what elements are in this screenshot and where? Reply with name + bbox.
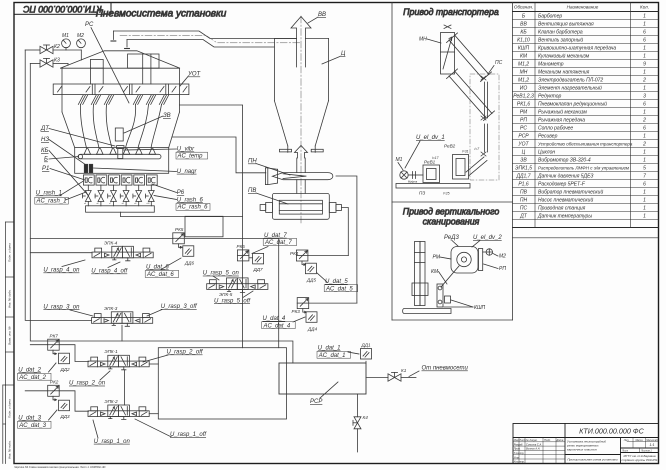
svg-text:РК3: РК3	[292, 309, 301, 314]
up arrow into cyclone	[295, 146, 308, 159]
svg-text:РК7: РК7	[50, 334, 59, 339]
svg-text:U_rasp_5_on: U_rasp_5_on	[203, 271, 240, 277]
labels U_dat_5	[325, 279, 353, 292]
valve К2	[40, 44, 60, 54]
svg-text:U_dat_4: U_dat_4	[263, 316, 286, 322]
wire drop to loop	[278, 239, 280, 348]
svg-text:1: 1	[643, 206, 646, 212]
svg-text:U_rasp_4_off: U_rasp_4_off	[91, 269, 128, 275]
svg-text:1: 1	[643, 86, 646, 92]
svg-text:1: 1	[643, 14, 646, 20]
wire drum taper to ПН	[172, 137, 266, 173]
svg-text:ДД7: ДД7	[253, 267, 263, 272]
svg-text:U_rasp_3_on: U_rasp_3_on	[43, 304, 80, 310]
ДД4	[306, 312, 317, 332]
svg-text:Вентиляция вытяжная: Вентиляция вытяжная	[538, 22, 594, 28]
drum lid	[60, 51, 180, 68]
cyclone centerline	[300, 16, 302, 224]
svg-text:U_el_dv_2: U_el_dv_2	[473, 235, 502, 241]
svg-text:U_rasp_2_on: U_rasp_2_on	[69, 381, 106, 387]
svg-text:Лит.: Лит.	[623, 439, 630, 442]
svg-text:К2: К2	[54, 44, 60, 50]
svg-text:Муфта: Муфта	[408, 180, 418, 184]
svg-text:ВВ: ВВ	[520, 22, 527, 28]
svg-text:U_dat_5: U_dat_5	[325, 279, 348, 285]
svg-text:6: 6	[643, 30, 646, 36]
chain shafts	[466, 76, 488, 176]
svg-text:Ц: Ц	[341, 51, 346, 57]
svg-text:Принципиальная схема установки: Принципиальная схема установки	[567, 458, 618, 462]
svg-text:КТИ.000.00.000 ФС: КТИ.000.00.000 ФС	[579, 427, 644, 436]
svg-text:Элемент нагревательный: Элемент нагревательный	[538, 85, 602, 92]
manifold bar	[86, 206, 155, 212]
svg-text:ИО: ИО	[520, 86, 528, 92]
svg-text:Р6: Р6	[177, 190, 185, 196]
svg-text:U_dat_7: U_dat_7	[264, 233, 287, 239]
svg-text:КМ: КМ	[431, 269, 439, 275]
svg-text:КМ: КМ	[520, 54, 528, 60]
ДД7	[253, 253, 264, 272]
belt drive 1	[447, 33, 492, 82]
svg-text:Циклон: Циклон	[538, 150, 555, 156]
pump ПН	[265, 158, 332, 193]
labels U_vibr AC_temp U_nagr	[177, 147, 204, 175]
stamp box top-left	[14, 3, 111, 15]
svg-text:Кол.: Кол.	[640, 4, 649, 9]
labels right Р6 U_rash_6	[177, 190, 209, 211]
svg-text:КБ: КБ	[41, 148, 49, 154]
svg-text:сканирования: сканирования	[423, 217, 480, 227]
svg-text:Манометр: Манометр	[538, 62, 564, 68]
svg-text:Р1,6: Р1,6	[518, 182, 529, 188]
svg-text:М1: М1	[396, 157, 403, 163]
svg-text:КШП: КШП	[474, 305, 486, 311]
svg-text:2: 2	[642, 118, 646, 124]
svg-text:РСР: РСР	[310, 399, 322, 405]
svg-text:1:1: 1:1	[650, 443, 655, 447]
svg-text:Лист: Лист	[621, 450, 628, 453]
svg-text:Сопло рабочее: Сопло рабочее	[538, 126, 573, 132]
svg-text:к5: к5	[84, 203, 86, 205]
svg-text:Рычажный механизм: Рычажный механизм	[538, 109, 587, 116]
coupling	[408, 172, 423, 184]
bubbler zone box	[75, 148, 169, 174]
labels U_dat_3	[18, 416, 46, 430]
svg-text:КШП: КШП	[518, 46, 530, 52]
svg-text:М1: М1	[62, 33, 69, 39]
labels left of flowmeter row	[36, 191, 67, 205]
svg-text:U_el_dv_1: U_el_dv_1	[416, 135, 445, 141]
section borders	[391, 3, 393, 321]
bubbler bar Б	[78, 154, 161, 159]
svg-text:AC_rash_1: AC_rash_1	[36, 199, 67, 205]
svg-text:Ц: Ц	[522, 150, 526, 156]
svg-text:Инв. № дубл.: Инв. № дубл.	[8, 289, 12, 308]
svg-text:ПС: ПС	[495, 60, 503, 66]
wire long horizontal to РК5	[30, 238, 173, 240]
svg-text:МН: МН	[419, 37, 427, 43]
svg-text:Инв. № подл.: Инв. № подл.	[8, 440, 12, 459]
svg-text:1: 1	[643, 150, 646, 156]
svg-text:ЗВ: ЗВ	[520, 158, 527, 164]
svg-text:6: 6	[643, 38, 646, 44]
lid feed pipes	[90, 68, 150, 84]
svg-text:1: 1	[643, 22, 646, 28]
svg-text:Пневмоклапан редукционный: Пневмоклапан редукционный	[538, 101, 607, 108]
svg-text:УОТ: УОТ	[518, 142, 529, 148]
svg-text:Масштаб: Масштаб	[646, 439, 658, 442]
wire loop rectangle	[158, 348, 286, 419]
svg-text:ЭПК-1: ЭПК-1	[104, 349, 118, 354]
svg-text:Масса: Масса	[635, 439, 643, 442]
РК7	[48, 334, 60, 355]
wire РК4 branch	[308, 255, 348, 257]
manometer М1	[62, 33, 71, 50]
svg-text:М1,2: М1,2	[518, 62, 529, 68]
svg-text:7: 7	[643, 174, 646, 180]
parts list table	[513, 3, 659, 238]
svg-text:Н.контр.: Н.контр.	[514, 460, 525, 464]
UOT conveyor bar	[53, 84, 189, 95]
gearbox РеВ2	[444, 144, 469, 180]
svg-text:РС: РС	[85, 22, 94, 28]
scan motor РеД3	[451, 247, 478, 274]
svg-text:U_nagr: U_nagr	[177, 169, 198, 175]
svg-text:Обознач.: Обознач.	[514, 4, 533, 9]
svg-text:ЭПК-2: ЭПК-2	[104, 399, 118, 404]
svg-text:Редуктор: Редуктор	[538, 94, 562, 100]
svg-text:М2: М2	[499, 254, 506, 260]
svg-text:№ докум.: № докум.	[526, 438, 538, 442]
svg-text:К3: К3	[54, 58, 60, 64]
svg-text:Распределитель ЛМФН с э/м упра: Распределитель ЛМФН с э/м управлением	[538, 166, 629, 171]
svg-text:ПС: ПС	[520, 206, 528, 212]
ДД6 sensor	[183, 246, 195, 266]
svg-text:i=31: i=31	[462, 150, 469, 154]
svg-text:Утв.: Утв.	[514, 455, 520, 459]
wire ЭПК-1 to ЭПК-2	[124, 370, 126, 405]
svg-text:Датчик давления 5ДЕЗ: Датчик давления 5ДЕЗ	[537, 174, 593, 180]
svg-text:Вибромотор ЗВ-320-4: Вибромотор ЗВ-320-4	[538, 158, 591, 164]
lift column	[412, 242, 428, 306]
svg-text:ДТ: ДТ	[519, 214, 528, 220]
svg-text:1: 1	[643, 110, 646, 116]
svg-text:1: 1	[643, 190, 646, 196]
svg-text:U_rasp_5_off: U_rasp_5_off	[214, 298, 251, 304]
valve К1 to net	[388, 368, 407, 381]
junction box	[185, 216, 223, 237]
svg-text:ЗВ: ЗВ	[163, 113, 171, 119]
svg-text:ПЗ: ПЗ	[419, 191, 425, 196]
svg-text:РК4: РК4	[290, 251, 299, 256]
svg-text:9: 9	[643, 62, 646, 68]
svg-text:Устройство обеспыливания транс: Устройство обеспыливания транспортера	[538, 141, 633, 147]
wire trunk to ЭПК-4	[30, 252, 92, 254]
svg-text:6: 6	[643, 102, 646, 108]
svg-text:Разраб.: Разраб.	[514, 442, 524, 446]
svg-text:к6: к6	[97, 203, 99, 205]
svg-text:6: 6	[643, 182, 646, 188]
wire trunk B to РК7	[30, 344, 47, 346]
wire ЭПК-1 to loop	[149, 363, 158, 365]
drum body	[62, 68, 180, 147]
svg-text:6: 6	[643, 126, 646, 132]
svg-text:Наименование: Наименование	[567, 4, 599, 9]
svg-text:РП: РП	[499, 266, 506, 272]
UOT label	[180, 72, 202, 87]
left margin strip	[3, 222, 14, 464]
vibrator ПВ	[260, 193, 341, 219]
svg-text:ПВ: ПВ	[520, 190, 528, 196]
ДД3	[59, 400, 70, 419]
cyclone body Ц	[274, 39, 328, 153]
svg-text:РС: РС	[520, 126, 527, 132]
svg-text:i=17: i=17	[432, 156, 439, 160]
svg-text:ДД3: ДД3	[60, 414, 70, 419]
svg-text:2: 2	[642, 78, 646, 84]
svg-text:U_dat_1: U_dat_1	[318, 346, 341, 352]
svg-text:U_rasp_4_on: U_rasp_4_on	[43, 268, 80, 274]
svg-text:Кривошипно-шатунная передача: Кривошипно-шатунная передача	[538, 46, 616, 52]
bubbler valves КБ row	[83, 185, 155, 206]
ЭПК-5 distributor	[207, 278, 268, 297]
svg-text:РП: РП	[520, 118, 527, 124]
svg-text:ЭПК-3: ЭПК-3	[104, 306, 118, 311]
base plate	[403, 309, 451, 314]
wire РК3 branch	[309, 302, 357, 304]
svg-text:Подп.: Подп.	[544, 438, 551, 442]
svg-text:3: 3	[643, 94, 646, 100]
svg-text:U_rasp_1_on: U_rasp_1_on	[94, 439, 131, 445]
svg-text:AC_dat_6: AC_dat_6	[146, 272, 174, 278]
svg-text:Подп. и дата: Подп. и дата	[8, 243, 12, 262]
svg-text:ДТ: ДТ	[40, 126, 50, 132]
svg-text:Ресивер: Ресивер	[538, 134, 558, 140]
ЭПК-4 distributor	[92, 241, 153, 261]
svg-text:1: 1	[643, 70, 646, 76]
bubbler feet	[84, 149, 156, 155]
svg-text:РеВ2: РеВ2	[444, 144, 456, 149]
labels U_dat_7	[264, 233, 292, 246]
svg-text:студент группы РК9-051: студент группы РК9-051	[621, 458, 657, 462]
crank mechanism КШП	[437, 266, 459, 307]
lid hatch box	[90, 54, 159, 68]
svg-text:Вентиль запорный: Вентиль запорный	[538, 37, 583, 44]
conveyor station ПС dashed box	[470, 74, 499, 180]
valve К4 drain	[353, 415, 368, 429]
svg-text:РеВ1: РеВ1	[424, 160, 436, 165]
duct drum to cyclone	[111, 31, 297, 49]
svg-text:Т.контр.: Т.контр.	[514, 451, 525, 455]
svg-text:ВВ: ВВ	[318, 12, 326, 18]
svg-text:Механизм натяжения: Механизм натяжения	[538, 70, 590, 76]
gearbox РеВ1	[423, 156, 440, 183]
svg-text:U_vibr: U_vibr	[177, 147, 195, 153]
РК2	[48, 380, 60, 401]
svg-text:М1,2: М1,2	[518, 78, 529, 84]
labels U_dat_4	[263, 316, 291, 329]
wire ЭПК-2 to loop	[149, 413, 158, 415]
svg-text:ДД4: ДД4	[307, 326, 317, 331]
title block (основная надпись)	[513, 424, 659, 464]
svg-text:U_rasp_3_off: U_rasp_3_off	[161, 304, 198, 310]
svg-text:Б: Б	[522, 14, 526, 20]
svg-text:к8: к8	[122, 203, 124, 205]
svg-text:ЭПК1,5: ЭПК1,5	[515, 166, 532, 172]
svg-text:5: 5	[643, 166, 646, 172]
svg-text:Подп. и дата: Подп. и дата	[8, 399, 12, 418]
duct centerline	[120, 35, 301, 43]
wire РК7 to ЭПК-1	[59, 345, 88, 362]
svg-text:РК5: РК5	[175, 227, 184, 232]
svg-text:Насос пневматический: Насос пневматический	[538, 197, 593, 204]
wire supply pipes	[25, 50, 81, 65]
svg-text:U_rash_6: U_rash_6	[177, 197, 204, 203]
ЭПК-3 distributor	[92, 306, 153, 326]
wire ЭПК-3 drop	[121, 325, 123, 341]
svg-text:AC_rash_6: AC_rash_6	[177, 205, 209, 211]
svg-text:ДД2: ДД2	[60, 367, 70, 372]
svg-text:Электродвигатель ПЛ-072: Электродвигатель ПЛ-072	[538, 78, 603, 84]
receiver РСР	[279, 363, 366, 405]
svg-text:Б: Б	[44, 157, 48, 163]
svg-text:Пров.: Пров.	[514, 447, 521, 451]
svg-text:Пневмосистема установки: Пневмосистема установки	[96, 9, 227, 20]
РК6	[237, 244, 253, 261]
svg-text:i=7: i=7	[475, 147, 480, 151]
belt drive 2	[447, 69, 495, 121]
wire manifold down right	[121, 212, 243, 216]
svg-text:МН: МН	[520, 70, 528, 76]
ЭПК-2 distributor	[88, 399, 149, 419]
svg-text:РК1,6: РК1,6	[517, 102, 530, 108]
svg-text:РМ: РМ	[520, 110, 528, 116]
svg-text:ЭПК-5: ЭПК-5	[219, 292, 233, 297]
svg-text:От пневмосети: От пневмосети	[422, 366, 469, 372]
center feed pipe	[117, 146, 124, 159]
svg-text:U_dat_3: U_dat_3	[18, 416, 41, 422]
РК3	[292, 298, 309, 314]
nozzle fingers	[78, 95, 168, 148]
tensioner МН	[419, 25, 455, 74]
svg-text:Волков А.Н.: Волков А.Н.	[526, 447, 541, 451]
svg-text:Рычажная передача: Рычажная передача	[538, 118, 585, 124]
lever plate РП	[479, 249, 487, 271]
svg-text:КБ: КБ	[520, 30, 527, 36]
svg-text:Датчик температуры: Датчик температуры	[537, 214, 592, 220]
svg-text:к9: к9	[134, 203, 136, 205]
labels U_dat_2	[18, 368, 46, 382]
ЭПК-1 distributor	[88, 349, 149, 370]
svg-text:1: 1	[643, 198, 646, 204]
left labels ДТ НЗ КБ Б Р1	[40, 126, 50, 172]
wire drum to РК6/loop column	[180, 105, 243, 348]
flowmeters Р1..Р6	[83, 175, 157, 185]
motor М2	[486, 249, 506, 260]
svg-text:РК2: РК2	[50, 380, 59, 385]
РК5 reducing valve	[173, 227, 185, 248]
motor М1	[396, 157, 409, 179]
wire trunk A to РК2	[25, 390, 48, 392]
svg-text:Чертеж N4 Схема пневматическая: Чертеж N4 Схема пневматическая принципиа…	[14, 465, 106, 469]
wire РК5 right	[185, 238, 279, 240]
svg-text:U_rasp_2_off: U_rasp_2_off	[167, 350, 204, 356]
wire left trunk A	[25, 50, 91, 320]
svg-text:ДД6: ДД6	[184, 261, 194, 266]
svg-text:Расходомер 5РЕТ-F: Расходомер 5РЕТ-F	[538, 182, 586, 188]
svg-text:U_rash_1: U_rash_1	[36, 191, 62, 197]
heater element НЗ	[84, 164, 92, 172]
svg-text:Взам. инв. №: Взам. инв. №	[8, 326, 12, 345]
svg-text:Листов 1: Листов 1	[640, 450, 652, 453]
svg-text:К1,10: К1,10	[517, 38, 530, 44]
svg-text:КТИ.000.00.000 ПС: КТИ.000.00.000 ПС	[23, 4, 102, 14]
wire РК2 to ЭПК-2	[59, 391, 88, 411]
svg-text:Привод вертикального: Привод вертикального	[403, 207, 500, 217]
svg-text:РМ: РМ	[433, 255, 441, 261]
svg-text:Барботер: Барботер	[538, 14, 562, 20]
svg-text:U_dat_6: U_dat_6	[146, 265, 169, 271]
wire ПН right / ПВ to РК line	[336, 176, 357, 303]
svg-text:УОТ: УОТ	[187, 72, 202, 78]
svg-text:М2: М2	[77, 33, 84, 39]
svg-text:Кулачковый механизм: Кулачковый механизм	[538, 53, 590, 60]
svg-text:Изм Лист: Изм Лист	[514, 438, 527, 442]
sensor ДД1	[361, 343, 372, 364]
svg-text:Соколов С.А.: Соколов С.А.	[526, 442, 542, 446]
svg-text:ДД1,7: ДД1,7	[516, 174, 531, 180]
svg-text:1: 1	[643, 134, 646, 140]
svg-text:РК6: РК6	[237, 244, 246, 249]
manometer М2	[77, 33, 86, 48]
wire left trunk B	[30, 64, 293, 364]
label U_el_dv_1	[405, 135, 445, 168]
wire ПВ ear to vertical	[342, 208, 349, 256]
svg-text:2: 2	[642, 142, 646, 148]
svg-text:ДД1: ДД1	[361, 343, 371, 348]
vibromotor ЗВ	[115, 113, 170, 141]
svg-text:1: 1	[643, 214, 646, 220]
svg-text:Привод транспортера: Привод транспортера	[403, 7, 499, 17]
svg-text:1: 1	[643, 46, 646, 52]
svg-text:Клапан барботера: Клапан барботера	[538, 30, 583, 36]
svg-text:Вибратор пневматический: Вибратор пневматический	[538, 189, 603, 196]
nozzle РС label	[85, 22, 129, 103]
svg-text:U_rasp_1_off: U_rasp_1_off	[170, 432, 207, 438]
svg-text:ПВ: ПВ	[248, 188, 256, 194]
svg-text:к7: к7	[109, 203, 112, 205]
svg-text:Р1: Р1	[42, 166, 49, 172]
svg-text:карточных пластин: карточных пластин	[567, 448, 597, 452]
РК4	[290, 250, 308, 265]
svg-text:РеВ1,2,3: РеВ1,2,3	[513, 94, 534, 100]
svg-text:РеД3: РеД3	[444, 235, 459, 241]
svg-text:ПН: ПН	[520, 198, 528, 204]
labels U_dat_1	[318, 346, 346, 360]
ДД5	[305, 263, 316, 282]
svg-text:U_dat_2: U_dat_2	[18, 368, 41, 374]
ДД2	[59, 353, 70, 372]
svg-text:К1: К1	[401, 368, 407, 373]
labels U_dat_6	[146, 265, 174, 279]
svg-text:НЗ: НЗ	[41, 137, 49, 143]
svg-text:1: 1	[643, 158, 646, 164]
base line	[396, 184, 470, 196]
svg-text:i=25: i=25	[443, 192, 450, 196]
svg-text:Дата: Дата	[556, 438, 564, 442]
svg-text:ЭПК-4: ЭПК-4	[104, 241, 118, 246]
svg-text:РСР: РСР	[518, 134, 529, 140]
